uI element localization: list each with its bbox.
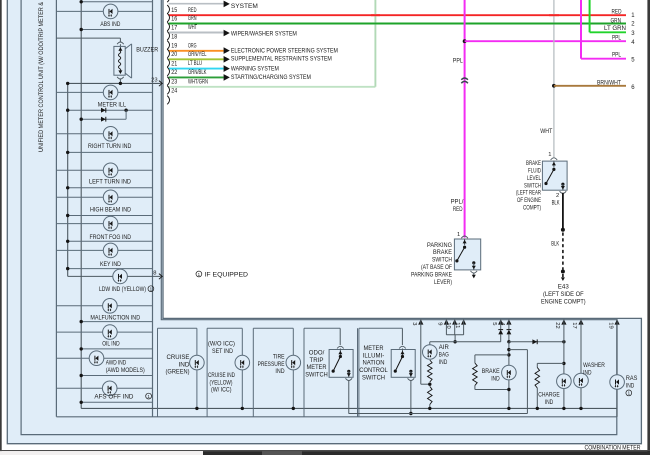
svg-text:MALFUNCTION IND: MALFUNCTION IND [90,315,140,322]
svg-text:NATION: NATION [363,360,385,367]
svg-text:8: 8 [153,271,156,277]
svg-text:CRUISE IND: CRUISE IND [208,372,235,379]
svg-text:METER: METER [364,345,384,352]
svg-text:UNIFIED METER CONTROL UNIT (W/: UNIFIED METER CONTROL UNIT (W/ ODO/TRIP … [38,1,45,152]
svg-text:(AWD MODELS): (AWD MODELS) [106,367,145,374]
svg-text:WHT: WHT [188,24,197,31]
svg-text:WHT/GRN: WHT/GRN [188,78,208,85]
svg-text:ENGINE COMPT): ENGINE COMPT) [541,298,586,305]
svg-text:GRN: GRN [188,15,197,22]
svg-text:LEVEL: LEVEL [527,175,541,182]
svg-text:IND: IND [439,359,448,366]
svg-text:PPL: PPL [453,58,463,65]
svg-text:AIR: AIR [439,344,449,351]
svg-text:(W/O ICC): (W/O ICC) [208,340,235,347]
svg-text:LT GRN: LT GRN [604,25,626,32]
svg-text:17: 17 [171,25,178,31]
svg-text:IND: IND [179,361,190,368]
svg-text:ODO/: ODO/ [309,349,325,356]
svg-text:1: 1 [457,232,460,238]
svg-text:22: 22 [171,70,178,76]
svg-text:PPL: PPL [612,35,621,42]
svg-text:GRN: GRN [611,17,622,24]
svg-text:9: 9 [437,322,443,325]
svg-text:(YELLOW): (YELLOW) [210,379,233,386]
svg-text:HIGH BEAM IND: HIGH BEAM IND [90,207,131,214]
svg-text:21: 21 [171,61,178,67]
svg-text:1: 1 [548,152,551,158]
svg-text:BLK: BLK [551,241,560,248]
svg-text:RAS: RAS [626,375,638,382]
svg-text:24: 24 [171,89,178,95]
svg-text:LDW IND (YELLOW): LDW IND (YELLOW) [99,286,146,293]
svg-text:SYSTEM: SYSTEM [231,3,258,10]
svg-text:BRAKE: BRAKE [482,368,500,375]
svg-text:SUPPLEMENTAL RESTRAINTS SYSTEM: SUPPLEMENTAL RESTRAINTS SYSTEM [231,56,332,63]
svg-text:CRUISE: CRUISE [167,354,190,361]
svg-text:BAG: BAG [439,352,449,359]
svg-text:E43: E43 [558,283,569,290]
svg-text:20: 20 [171,52,178,58]
svg-text:TIRE: TIRE [273,353,285,360]
svg-text:ILLUMI-: ILLUMI- [363,352,385,359]
svg-text:OIL IND: OIL IND [102,340,120,347]
svg-text:(LEFT SIDE OF: (LEFT SIDE OF [543,291,584,298]
svg-text:IND: IND [626,383,635,390]
svg-text:IF EQUIPPED: IF EQUIPPED [205,271,249,278]
svg-text:23: 23 [171,80,178,86]
svg-text:AWD IND: AWD IND [106,359,127,366]
svg-text:15: 15 [171,8,178,14]
svg-text:ELECTRONIC POWER STEERING SYST: ELECTRONIC POWER STEERING SYSTEM [231,48,338,55]
svg-text:16: 16 [171,16,178,22]
svg-text:BRN/WHT: BRN/WHT [597,79,621,86]
svg-text:TRIP: TRIP [310,357,324,364]
svg-text:19: 19 [171,44,178,50]
svg-text:ABS IND: ABS IND [100,21,120,28]
svg-text:SWITCH: SWITCH [305,372,328,379]
svg-text:2: 2 [556,193,559,199]
svg-text:LEVER): LEVER) [434,279,452,286]
svg-text:10: 10 [445,322,451,328]
svg-text:PPL/: PPL/ [451,199,464,206]
svg-text:IND: IND [545,399,554,406]
svg-text:FRONT FOG IND: FRONT FOG IND [90,234,132,241]
svg-text:WHT: WHT [540,128,552,135]
svg-text:LEFT TURN IND: LEFT TURN IND [89,178,131,185]
svg-text:RED: RED [612,8,622,15]
svg-text:BRAKE: BRAKE [433,249,452,256]
svg-text:SWITCH: SWITCH [432,257,452,264]
svg-text:IND: IND [275,368,285,375]
svg-text:SWITCH: SWITCH [362,375,385,382]
svg-text:STARTING/CHARGING SYSTEM: STARTING/CHARGING SYSTEM [231,74,311,81]
svg-text:PARKING BRAKE: PARKING BRAKE [411,271,452,278]
svg-text:FLUID: FLUID [528,168,541,175]
svg-text:CHARGE: CHARGE [538,391,560,398]
svg-text:AFS OFF IND: AFS OFF IND [94,393,133,400]
svg-text:5: 5 [491,322,497,325]
svg-text:ORG: ORG [188,42,197,49]
svg-text:17: 17 [571,322,577,328]
svg-text:18: 18 [171,34,178,40]
svg-text:WASHER: WASHER [583,362,605,369]
svg-text:KEY IND: KEY IND [100,261,121,268]
svg-text:IND: IND [583,370,592,377]
svg-text:METER: METER [307,364,327,371]
svg-text:PARKING: PARKING [427,242,452,249]
svg-text:WIPER/WASHER SYSTEM: WIPER/WASHER SYSTEM [231,30,297,37]
svg-text:PPL: PPL [612,51,621,58]
svg-text:WARNING SYSTEM: WARNING SYSTEM [231,65,279,72]
svg-text:GRN/YEL: GRN/YEL [188,51,207,58]
svg-text:GRN/BLK: GRN/BLK [188,69,207,76]
svg-text:RIGHT TURN IND: RIGHT TURN IND [88,143,132,150]
svg-text:SWITCH: SWITCH [524,182,541,189]
svg-text:METER ILL: METER ILL [98,101,127,108]
svg-text:COMPT): COMPT) [523,205,541,212]
svg-text:PRESSURE: PRESSURE [258,361,285,368]
svg-text:23: 23 [151,77,157,83]
svg-text:IND: IND [491,375,500,382]
svg-text:RED: RED [188,7,197,14]
svg-text:(W/ ICC): (W/ ICC) [211,387,232,394]
svg-text:BRAKE: BRAKE [526,160,541,167]
svg-text:RED: RED [453,206,463,213]
svg-text:22: 22 [554,322,560,328]
svg-text:BLK: BLK [552,200,561,207]
svg-text:(LEFT REAR: (LEFT REAR [516,190,541,197]
svg-text:LT BLU: LT BLU [188,60,202,67]
svg-text:OF ENGINE: OF ENGINE [517,197,541,204]
svg-text:SET IND: SET IND [212,348,233,355]
svg-text:BUZZER: BUZZER [136,47,158,54]
svg-text:19: 19 [607,322,613,328]
svg-text:3: 3 [411,322,417,325]
svg-text:(AT BASE OF: (AT BASE OF [421,264,452,271]
svg-text:CONTROL: CONTROL [359,367,388,374]
svg-text:(GREEN): (GREEN) [166,369,190,376]
